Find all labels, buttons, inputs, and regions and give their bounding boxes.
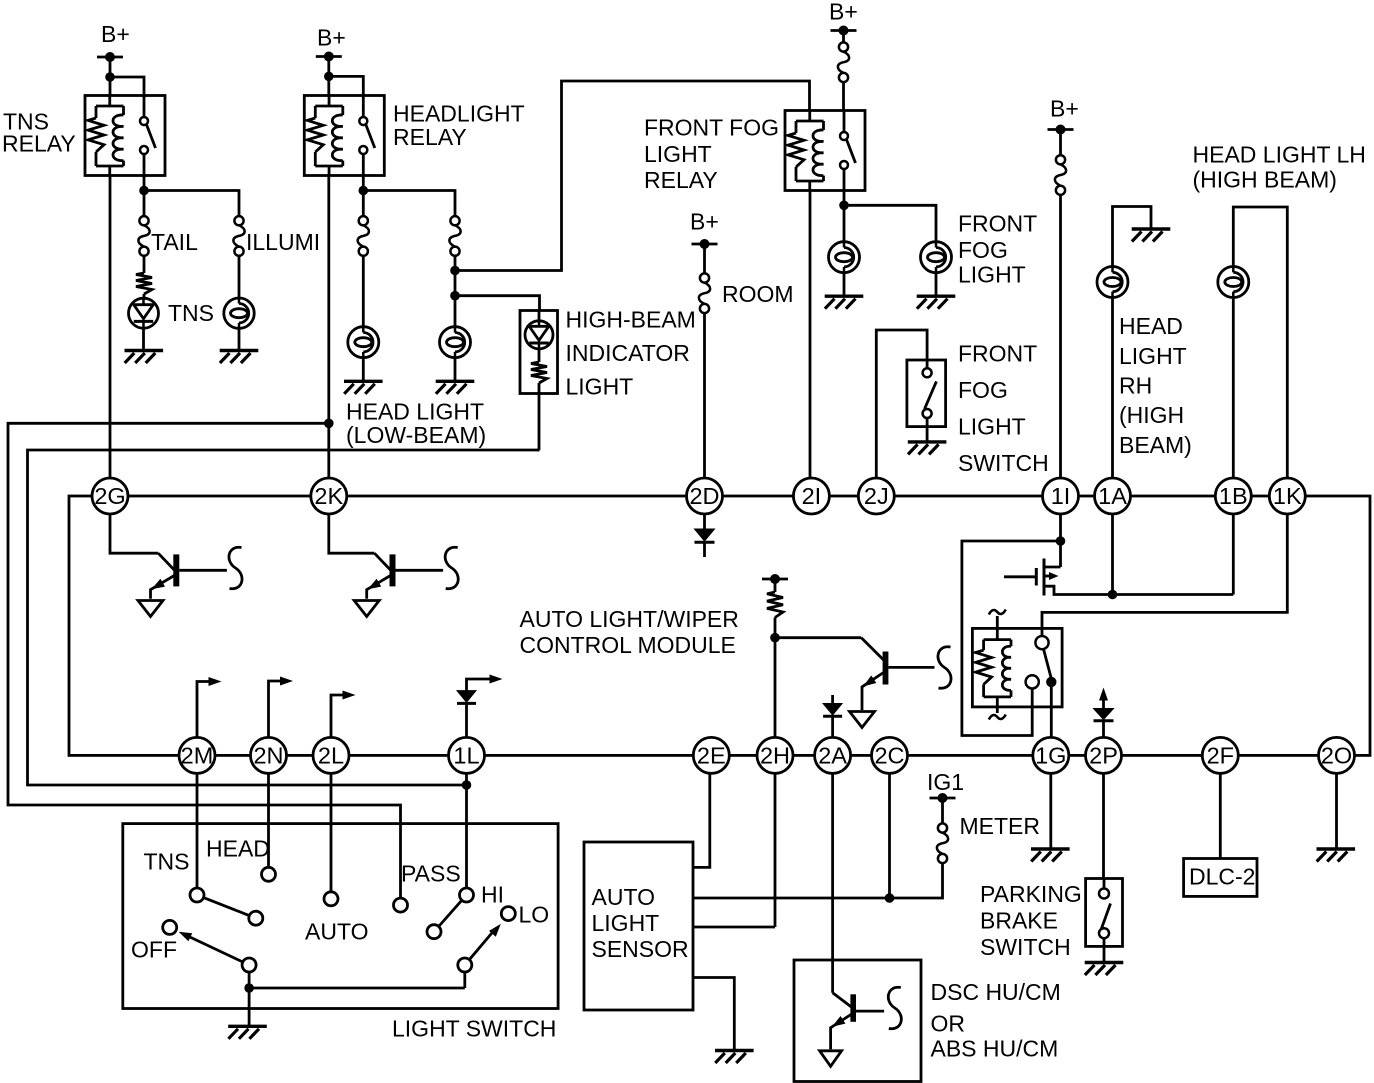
wire coil to 2I [809, 191, 812, 479]
svg-text:2P: 2P [1089, 743, 1118, 769]
svg-text:SWITCH: SWITCH [980, 934, 1071, 960]
blade [204, 898, 250, 916]
wire drain loop [962, 541, 1061, 736]
wire [538, 383, 541, 394]
squiggle (DSC circuit) [888, 987, 901, 1029]
wire [362, 256, 365, 327]
wire to 1I [1059, 195, 1062, 478]
connector 2L [313, 737, 349, 773]
svg-text:2F: 2F [1207, 743, 1234, 769]
svg-text:RH: RH [1119, 373, 1152, 399]
ground [1031, 849, 1070, 862]
wire [703, 244, 706, 273]
wire to ground [1113, 207, 1152, 267]
ground [715, 1051, 754, 1064]
wire 2J to fog switch [876, 330, 927, 478]
diode below 2D [695, 514, 715, 557]
connector 2P [1086, 737, 1122, 773]
svg-text:HEAD: HEAD [206, 836, 270, 862]
connector 2K [311, 478, 347, 514]
lamp front fog RH [921, 242, 952, 273]
wire [935, 273, 938, 297]
lamp head light low RH [348, 327, 379, 358]
svg-text:HIGH-BEAM: HIGH-BEAM [566, 307, 696, 333]
svg-text:FOG: FOG [958, 377, 1008, 403]
contact pivot right [458, 958, 472, 972]
fuse [1055, 155, 1066, 195]
arrow out 2L [331, 691, 356, 738]
connector 2E [693, 737, 729, 773]
svg-text:SWITCH: SWITCH [958, 450, 1049, 476]
transistor Q1 [151, 553, 227, 599]
wire [1059, 130, 1062, 156]
wire 2F to DLC-2 [1219, 773, 1222, 858]
junction [244, 983, 254, 993]
label AUTO LIGHT SENSOR [592, 884, 689, 962]
svg-text:TNS: TNS [168, 300, 214, 326]
MOSFET Q3 [1004, 559, 1233, 596]
label HEADLIGHT RELAY [393, 101, 525, 151]
label HEAD [206, 836, 270, 862]
svg-text:TNS: TNS [144, 849, 190, 875]
svg-text:2G: 2G [94, 483, 125, 509]
junction [324, 419, 334, 429]
label HIGH-BEAM INDICATOR LIGHT [566, 307, 696, 400]
svg-text:2H: 2H [760, 743, 790, 769]
contact lever end [249, 911, 263, 925]
svg-text:(LOW-BEAM): (LOW-BEAM) [346, 422, 486, 448]
svg-text:PASS: PASS [401, 861, 461, 887]
svg-text:(HIGH: (HIGH [1119, 402, 1184, 428]
svg-text:PARKING: PARKING [980, 881, 1082, 907]
junction [450, 266, 460, 276]
floating ground [850, 712, 875, 728]
wire [454, 256, 457, 327]
svg-text:HEAD: HEAD [1119, 313, 1183, 339]
label HEAD LIGHT LH (HIGH BEAM) [1193, 142, 1366, 193]
wire coil to 2G [109, 176, 112, 479]
label TAIL [151, 229, 198, 255]
svg-text:2N: 2N [253, 743, 283, 769]
fuse (low-beam RH) [358, 216, 369, 256]
wire 1L to HI contact [465, 773, 468, 888]
svg-text:1I: 1I [1051, 483, 1071, 509]
wire [327, 57, 330, 96]
svg-text:TAIL: TAIL [151, 229, 198, 255]
wire 1A up [1111, 298, 1114, 479]
svg-text:LIGHT SWITCH: LIGHT SWITCH [392, 1016, 556, 1042]
module relay coil+resistor [976, 640, 1011, 697]
wire 1B down [1232, 514, 1235, 595]
headlight relay [304, 96, 384, 176]
svg-text:OR: OR [931, 1011, 966, 1037]
svg-text:ROOM: ROOM [722, 281, 794, 307]
junction [1056, 536, 1066, 546]
svg-text:2C: 2C [874, 743, 904, 769]
label ROOM [722, 281, 794, 307]
junction [105, 72, 115, 82]
svg-text:METER: METER [960, 813, 1041, 839]
floating ground [138, 601, 163, 617]
label AUTO [305, 919, 368, 945]
junction [770, 633, 780, 643]
wire switch out [843, 191, 846, 242]
fuse ILLUMI [233, 216, 244, 256]
wire [842, 82, 845, 110]
label HEAD LIGHT RH (HIGH BEAM) [1119, 313, 1192, 458]
label FRONT FOG LIGHT SWITCH [958, 341, 1049, 477]
diode+arrow above 2P [1094, 688, 1114, 738]
label METER [960, 813, 1041, 839]
contact AUTO [324, 892, 338, 906]
connector 2A [815, 737, 851, 773]
svg-text:LIGHT: LIGHT [644, 141, 712, 167]
wire indicator to left rail [538, 394, 541, 451]
contact PASS [394, 898, 408, 912]
svg-text:B+: B+ [690, 209, 719, 235]
floating ground [820, 1051, 842, 1067]
front fog light switch box [907, 360, 946, 427]
svg-text:FOG: FOG [958, 237, 1008, 263]
tilde terminal [989, 697, 1006, 720]
ground [1132, 229, 1171, 242]
wire [143, 294, 146, 298]
wire relay to 1G [1050, 682, 1053, 738]
arrow out 2M [197, 677, 222, 738]
wire [842, 31, 845, 43]
svg-text:AUTO LIGHT/WIPER: AUTO LIGHT/WIPER [520, 606, 739, 632]
wire [329, 76, 364, 95]
svg-text:2E: 2E [697, 743, 726, 769]
wire 2N to HEAD contact [267, 773, 270, 867]
B+ terminal (1I) [1048, 96, 1079, 135]
tilde terminal [989, 610, 1006, 640]
svg-text:AUTO: AUTO [592, 884, 655, 910]
LED high-beam indicator [525, 321, 553, 349]
svg-text:OFF: OFF [131, 937, 177, 963]
contact HI lever end [427, 925, 441, 939]
contact OFF [163, 920, 177, 934]
connector 2C [872, 737, 908, 773]
B+ terminal (room) [690, 209, 719, 250]
ground [436, 381, 475, 394]
transistor Q4 [861, 638, 934, 710]
wire [110, 77, 144, 96]
diode+arrow above 1L [457, 675, 503, 738]
wire [143, 256, 146, 273]
wire 2P down [1102, 773, 1105, 878]
svg-text:2O: 2O [1321, 743, 1352, 769]
DSC/ABS box [794, 960, 921, 1082]
resistor [767, 579, 783, 638]
svg-text:ILLUMI: ILLUMI [246, 229, 320, 255]
svg-text:SENSOR: SENSOR [592, 936, 689, 962]
label FRONT FOG LIGHT RELAY [644, 115, 779, 194]
svg-text:FRONT: FRONT [958, 211, 1037, 237]
svg-text:BEAM): BEAM) [1119, 432, 1192, 458]
wire 2H down [774, 773, 777, 927]
floating ground [354, 601, 379, 617]
DLC-2 box [1184, 859, 1257, 897]
wire [1232, 298, 1235, 479]
wire sensor pin1 to 2E [693, 773, 710, 867]
junction below 1L [462, 780, 472, 790]
svg-text:LIGHT: LIGHT [1119, 343, 1187, 369]
wire to ILLUMI fuse [144, 191, 239, 217]
lever arrow to OFF [179, 932, 243, 962]
squiggle (module circuit) [445, 547, 458, 589]
wire 2L to AUTO contact [330, 773, 333, 891]
wire 1K to relay [1042, 514, 1287, 636]
parking brake switch contacts [1099, 889, 1111, 939]
junction [359, 186, 369, 196]
B+ terminal (front fog) [829, 0, 858, 36]
svg-text:IG1: IG1 [927, 769, 964, 795]
wire to transistor Q4 [775, 636, 861, 639]
wire 2M to TNS contact [196, 773, 199, 888]
svg-text:LIGHT: LIGHT [566, 374, 634, 400]
wire switch out [143, 176, 146, 217]
svg-text:1A: 1A [1098, 483, 1127, 509]
svg-text:1L: 1L [453, 743, 479, 769]
fuse (low-beam LH) [449, 216, 460, 256]
connector 2F [1202, 737, 1238, 773]
label LO [519, 902, 550, 928]
ground [825, 296, 864, 309]
wire 1I down [1059, 514, 1062, 567]
wire 2K to transistor Q2 [329, 514, 375, 553]
transistor Q2 [367, 553, 443, 599]
wire [238, 256, 241, 298]
svg-text:AUTO: AUTO [305, 919, 368, 945]
svg-text:INDICATOR: INDICATOR [566, 340, 690, 366]
svg-text:FRONT: FRONT [958, 341, 1037, 367]
svg-text:ABS HU/CM: ABS HU/CM [931, 1036, 1059, 1062]
svg-text:LIGHT: LIGHT [958, 414, 1026, 440]
parking brake switch box [1086, 879, 1123, 947]
fog switch contacts [923, 368, 937, 418]
contact HI [460, 888, 474, 902]
squiggle (module circuit) [229, 547, 242, 589]
auto light/wiper control module box [69, 496, 1370, 755]
lamp head light low LH [440, 327, 471, 358]
label TNS [168, 300, 214, 326]
wire sensor pin2 to meter fuse [693, 862, 943, 898]
wire 1A down [1111, 514, 1114, 595]
wire [843, 273, 846, 297]
svg-text:HEAD LIGHT LH: HEAD LIGHT LH [1193, 142, 1366, 168]
svg-text:2D: 2D [689, 483, 719, 509]
wire to right fuse [363, 191, 455, 217]
connector 2N [251, 737, 287, 773]
svg-text:LIGHT: LIGHT [592, 910, 660, 936]
wire [926, 360, 929, 442]
wire to indicator [455, 296, 540, 311]
wire 2O to ground [1335, 773, 1338, 849]
label AUTO LIGHT/WIPER CONTROL MODULE [520, 606, 739, 658]
label PASS [401, 861, 461, 887]
svg-text:RELAY: RELAY [2, 131, 76, 157]
wire [142, 328, 145, 350]
wire pivots common [249, 972, 465, 1026]
wire [941, 798, 944, 823]
transistor Q5 [831, 993, 885, 1050]
ground [908, 442, 947, 455]
IG1 terminal [927, 769, 964, 803]
label PARKING BRAKE SWITCH [980, 881, 1082, 960]
wire [238, 328, 241, 350]
junction [450, 291, 460, 301]
TNS relay [85, 96, 165, 176]
connector 2D [687, 478, 723, 514]
svg-text:CONTROL MODULE: CONTROL MODULE [520, 632, 736, 658]
contact HEAD [262, 867, 276, 881]
connector 2H [757, 737, 793, 773]
svg-text:1G: 1G [1035, 743, 1066, 769]
svg-text:2M: 2M [181, 743, 214, 769]
wire 1B/1K bracket [1233, 207, 1287, 478]
connector 1I [1043, 478, 1079, 514]
contact TNS [190, 888, 204, 902]
svg-text:(HIGH BEAM): (HIGH BEAM) [1193, 167, 1337, 193]
ground [228, 1026, 267, 1039]
svg-text:1K: 1K [1273, 483, 1302, 509]
label ILLUMI [246, 229, 320, 255]
label OFF [131, 937, 177, 963]
label HI [481, 882, 504, 908]
wire [1103, 879, 1106, 963]
svg-text:2J: 2J [864, 483, 889, 509]
connector 2J [858, 478, 894, 514]
module relay box [972, 628, 1062, 707]
TNS LED lamp [129, 298, 159, 328]
junction [1108, 590, 1118, 600]
junction [324, 72, 334, 82]
contact pivot left [242, 958, 256, 972]
B+ terminal (headlight relay) [316, 25, 346, 62]
connector 1L [449, 737, 485, 773]
svg-text:DSC HU/CM: DSC HU/CM [931, 979, 1061, 1005]
front fog light relay [785, 111, 865, 191]
wire to fog relay coil [455, 81, 810, 271]
svg-text:HEADLIGHT: HEADLIGHT [393, 101, 525, 127]
contact LO [501, 907, 515, 921]
svg-text:RELAY: RELAY [393, 124, 467, 150]
connector 1A [1095, 478, 1131, 514]
lamp ILLUMI [224, 298, 254, 328]
svg-text:LIGHT: LIGHT [958, 262, 1026, 288]
wire sensor pin3 to 2H [693, 926, 775, 929]
wire [362, 358, 365, 382]
label LIGHT SWITCH [392, 1016, 556, 1042]
high-beam indicator box [520, 311, 558, 394]
svg-text:FRONT FOG: FRONT FOG [644, 115, 779, 141]
light switch box [123, 824, 558, 1009]
wire 2G to transistor Q1 [110, 514, 158, 553]
svg-text:RELAY: RELAY [644, 167, 718, 193]
svg-text:BRAKE: BRAKE [980, 908, 1058, 934]
lamp front fog LH [829, 242, 860, 273]
svg-text:HEAD LIGHT: HEAD LIGHT [346, 399, 484, 425]
squiggle (module circuit) [938, 647, 951, 689]
wire [109, 57, 112, 96]
wire high-beam indicator to HI/1L [28, 450, 540, 785]
wire to right fog lamp [844, 205, 936, 241]
label FRONT FOG LIGHT [958, 211, 1037, 288]
label HEAD LIGHT (LOW-BEAM) [346, 399, 486, 449]
svg-text:HI: HI [481, 882, 504, 908]
ground [220, 351, 259, 364]
fuse TAIL [138, 216, 149, 256]
label TNS [144, 849, 190, 875]
wire 2A down [831, 773, 834, 992]
wire to 2H [774, 638, 777, 738]
lever arrow to LO [469, 924, 501, 960]
svg-text:DLC-2: DLC-2 [1189, 864, 1255, 890]
wire [454, 358, 457, 382]
auto light sensor box [584, 842, 693, 1010]
ground [125, 351, 164, 364]
fuse METER [937, 823, 948, 863]
connector 1K [1269, 478, 1305, 514]
wire coil to 2K [327, 176, 330, 479]
resistor [136, 273, 152, 294]
svg-text:2K: 2K [314, 483, 343, 509]
svg-text:2A: 2A [818, 743, 847, 769]
svg-text:B+: B+ [101, 21, 130, 47]
wire to 2D [703, 313, 706, 478]
wire [538, 311, 541, 321]
blade [439, 900, 462, 926]
connector 2I [793, 478, 829, 514]
label DSC HU/CM OR ABS HU/CM [931, 979, 1061, 1062]
connector 1B [1215, 478, 1251, 514]
supply terminal [762, 574, 788, 584]
junction [885, 893, 895, 903]
resistor [531, 362, 547, 383]
ground [1317, 849, 1356, 862]
wire 1G to ground [1049, 773, 1052, 849]
junction [139, 186, 149, 196]
wire 2C down [888, 773, 891, 898]
lamp head light RH high [1097, 267, 1128, 298]
wire switch out [362, 176, 365, 217]
connector 1G [1033, 737, 1069, 773]
module relay switch [1026, 636, 1057, 689]
svg-text:2L: 2L [318, 743, 344, 769]
fuse [838, 42, 849, 82]
ground [917, 296, 956, 309]
connector 2G [92, 478, 128, 514]
fuse ROOM [699, 273, 710, 313]
svg-text:B+: B+ [1050, 96, 1079, 122]
svg-text:LO: LO [519, 902, 550, 928]
ground [1085, 963, 1124, 976]
svg-text:1B: 1B [1219, 483, 1248, 509]
lamp head light LH high [1218, 267, 1249, 298]
ground [344, 381, 383, 394]
B+ terminal (TNS relay) [97, 21, 130, 62]
junction [839, 201, 849, 211]
wire pass feed (low-beam to PASS contact) [8, 423, 401, 898]
svg-text:B+: B+ [829, 0, 858, 25]
connector 2M [179, 737, 215, 773]
connector 2O [1319, 737, 1355, 773]
label TNS RELAY [2, 109, 76, 157]
svg-text:2I: 2I [802, 483, 822, 509]
wire sensor pin4 to ground [693, 978, 734, 1051]
arrow out 2N [269, 677, 294, 738]
